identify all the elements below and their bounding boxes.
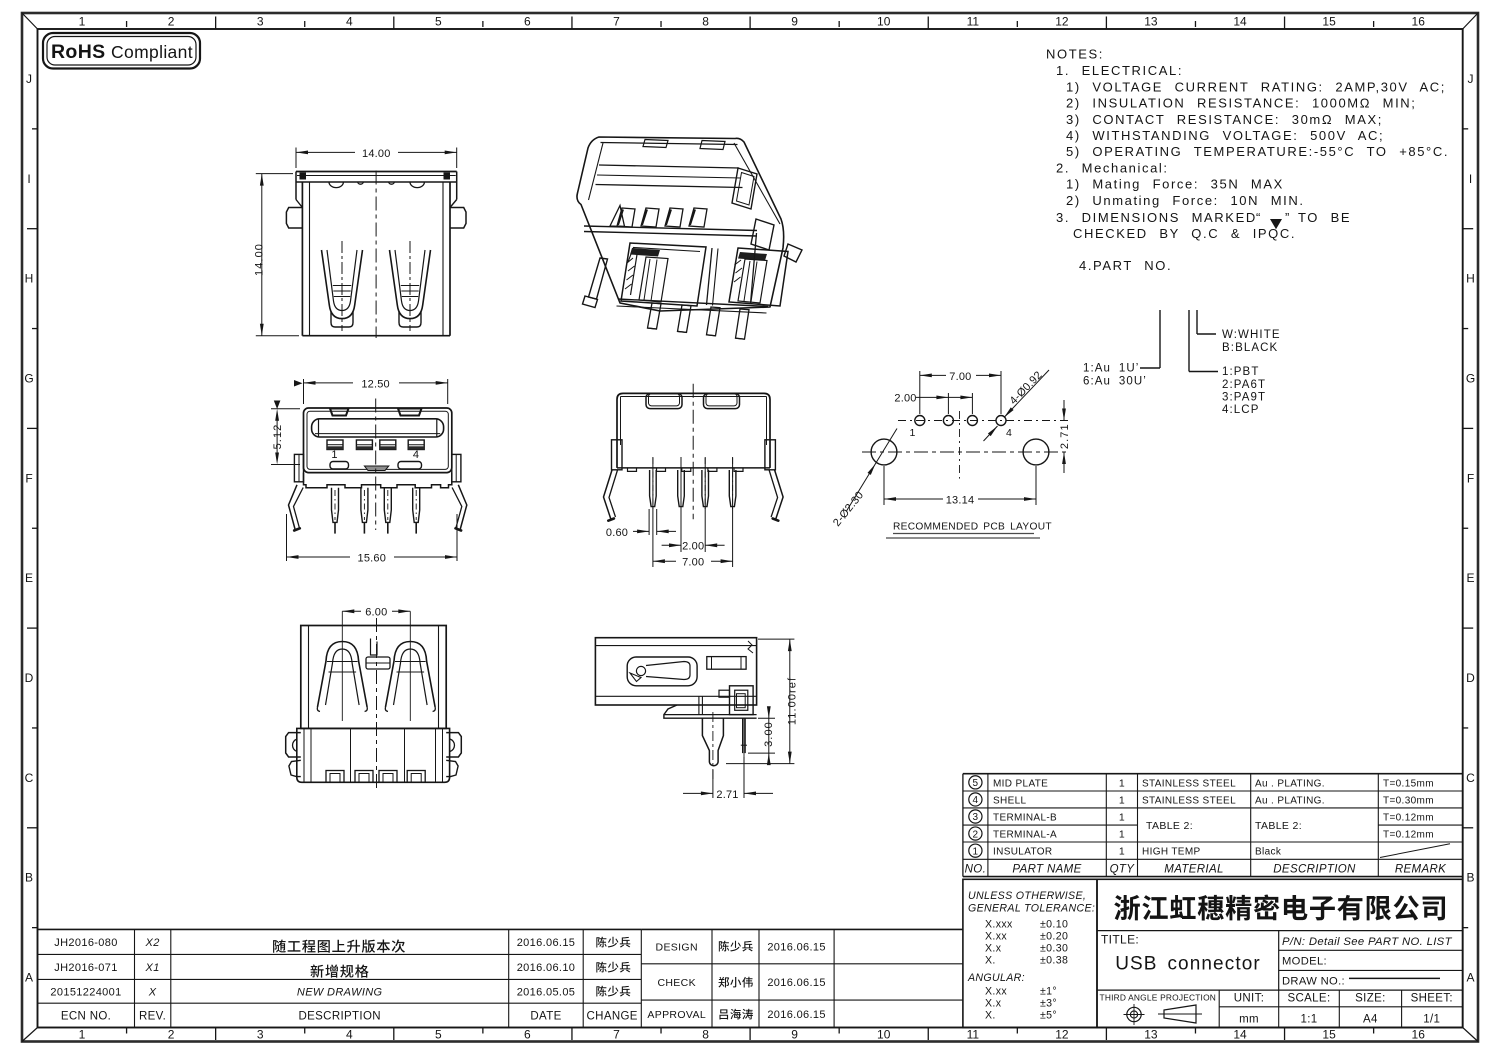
isometric view: right pointed tab xyxy=(784,244,802,262)
svg-text:2016.05.05: 2016.05.05 xyxy=(517,986,576,998)
svg-text:T=0.12mm: T=0.12mm xyxy=(1383,830,1434,841)
side view: dimension 3.00 line and arrows xyxy=(768,707,770,718)
back view: side tab left xyxy=(612,440,623,470)
svg-text:±0.38: ±0.38 xyxy=(1040,955,1068,967)
svg-text:X.xx: X.xx xyxy=(985,986,1007,998)
pcb layout: dimension 2.00 extension lines xyxy=(947,393,949,414)
isometric view: top face notch 1 xyxy=(643,140,668,148)
ruler column numbers bottom xyxy=(79,1028,1426,1042)
svg-text:3) CONTACT RESISTANCE: 30mΩ MA: 3) CONTACT RESISTANCE: 30mΩ MAX; xyxy=(1066,112,1383,127)
ruler tick marks left edge xyxy=(32,128,38,130)
title block draw no dash xyxy=(1349,977,1440,979)
frame corner diagonal bottom-left xyxy=(22,1028,38,1042)
top view: dimension 12.50 extension lines xyxy=(303,379,305,404)
svg-text:±1°: ±1° xyxy=(1040,986,1057,998)
svg-text:13: 13 xyxy=(1144,15,1158,29)
svg-text:1) VOLTAGE CURRENT RATING: 2AM: 1) VOLTAGE CURRENT RATING: 2AMP,30V AC; xyxy=(1066,80,1446,95)
svg-text:6:Au 30U’: 6:Au 30U’ xyxy=(1083,376,1147,388)
svg-text:DESCRIPTION: DESCRIPTION xyxy=(1273,864,1356,876)
svg-text:CHECK: CHECK xyxy=(657,977,696,989)
svg-text:DESIGN: DESIGN xyxy=(656,942,698,954)
front view: contact spring right xyxy=(390,250,431,319)
bottom view: contact spring bell right xyxy=(386,642,436,708)
isometric view: rim left triangle feature xyxy=(610,206,625,227)
svg-text:I: I xyxy=(1469,172,1472,186)
back view: dimension 0.60 arrows xyxy=(633,530,649,532)
bottom view: side bracket right upper xyxy=(446,733,461,757)
pcb layout: dimension 7.00 line and arrows xyxy=(920,374,946,376)
isometric view: top face back edge inner line xyxy=(601,143,738,145)
isometric view: right face cutout lower xyxy=(751,219,774,250)
svg-text:13: 13 xyxy=(1144,1028,1158,1042)
svg-text:4: 4 xyxy=(346,1028,353,1042)
svg-text:D: D xyxy=(25,671,34,685)
back view: bottom castellation xyxy=(628,468,637,472)
front view: dimension 14.00 width extension lines xyxy=(295,148,297,169)
top view: terminal pins xyxy=(332,488,339,523)
svg-text:20151224001: 20151224001 xyxy=(50,986,121,998)
top view: side tab right xyxy=(452,454,461,481)
svg-text:±3°: ±3° xyxy=(1040,998,1057,1010)
isometric view: bent mounting leg left xyxy=(589,258,608,299)
svg-text:0.60: 0.60 xyxy=(606,527,628,539)
parts table grid xyxy=(963,773,1463,775)
svg-text:B: B xyxy=(1466,871,1474,885)
svg-text:HIGH TEMP: HIGH TEMP xyxy=(1142,847,1201,858)
svg-text:1/1: 1/1 xyxy=(1423,1013,1440,1025)
bottom view: base block seam lines xyxy=(303,728,305,782)
svg-text:MODEL:: MODEL: xyxy=(1282,956,1327,968)
side view: peg centerline xyxy=(712,712,714,781)
svg-text:SHELL: SHELL xyxy=(993,795,1027,806)
svg-text:1: 1 xyxy=(1119,777,1125,789)
bottom view: side bracket left upper xyxy=(286,733,301,757)
front view: side mounting flange right xyxy=(450,208,466,229)
ruler tick marks top edge xyxy=(126,21,128,27)
pcb layout: leader 4-dia0.92 xyxy=(1004,370,1049,418)
svg-text:NEW DRAWING: NEW DRAWING xyxy=(297,986,383,998)
svg-text:2:PA6T: 2:PA6T xyxy=(1222,379,1266,391)
svg-text:9: 9 xyxy=(791,15,798,29)
svg-text:1: 1 xyxy=(331,449,338,461)
svg-text:±0.10: ±0.10 xyxy=(1040,919,1068,931)
svg-text:RECOMMENDED PCB LAYOUT: RECOMMENDED PCB LAYOUT xyxy=(893,522,1052,533)
revision table change names xyxy=(596,937,630,948)
bottom view: side bracket right lower xyxy=(446,760,458,776)
svg-text:H: H xyxy=(1466,272,1475,286)
svg-text:1: 1 xyxy=(79,15,86,29)
front view: shell body outline xyxy=(301,182,303,336)
top view: checked triangle marker horizontal xyxy=(294,380,303,387)
svg-text:10: 10 xyxy=(877,1028,891,1042)
bottom view: center hook feature xyxy=(371,639,378,656)
svg-text:1: 1 xyxy=(79,1028,86,1042)
back view: dimension 0.60 extension lines xyxy=(648,509,650,535)
svg-text:T=0.12mm: T=0.12mm xyxy=(1383,813,1434,824)
top view: bottom center notch xyxy=(364,466,388,471)
svg-text:Au . PLATING.: Au . PLATING. xyxy=(1255,778,1325,789)
side view: body outline xyxy=(595,638,756,705)
svg-text:2: 2 xyxy=(168,1028,175,1042)
side view: dimension 11.00ref line and arrows xyxy=(789,639,791,764)
front view: dimension 14.00 height line and arrows xyxy=(261,174,263,336)
top view: dimension 5.12 extension lines xyxy=(271,408,300,410)
svg-text:15.60: 15.60 xyxy=(358,552,387,564)
svg-text:4: 4 xyxy=(413,449,420,461)
svg-text:15: 15 xyxy=(1322,1028,1336,1042)
title block title/pn divider xyxy=(1278,931,1280,991)
svg-text:2016.06.15: 2016.06.15 xyxy=(767,1009,826,1021)
svg-text:SIZE:: SIZE: xyxy=(1355,993,1386,1005)
svg-text:1:Au 1U’: 1:Au 1U’ xyxy=(1083,363,1139,375)
frame corner diagonal top-left xyxy=(22,13,38,29)
svg-text:X: X xyxy=(148,986,157,998)
pcb layout: pin hole centerline horizontal xyxy=(898,420,1070,422)
svg-text:X.x: X.x xyxy=(985,998,1002,1010)
svg-text:4: 4 xyxy=(1006,427,1013,439)
svg-text:GENERAL TOLERANCE:: GENERAL TOLERANCE: xyxy=(968,903,1095,915)
svg-text:mm: mm xyxy=(1239,1013,1259,1025)
svg-text:B:BLACK: B:BLACK xyxy=(1222,342,1278,354)
top view: shell body outline xyxy=(304,408,452,473)
back view: bent side leg right xyxy=(775,470,784,520)
svg-text:2016.06.15: 2016.06.15 xyxy=(767,977,826,989)
svg-text:2) INSULATION RESISTANCE: 1000: 2) INSULATION RESISTANCE: 1000MΩ MIN; xyxy=(1066,96,1416,111)
svg-text:X.xxx: X.xxx xyxy=(985,919,1013,931)
isometric view: front rim bottom double line xyxy=(584,226,757,231)
isometric view: terminal legs xyxy=(648,303,662,329)
svg-text:2: 2 xyxy=(972,829,978,840)
svg-text:NOTES:: NOTES: xyxy=(1046,47,1104,62)
top view: dimension 15.60 line and arrows xyxy=(287,556,351,558)
svg-text:1) Mating Force: 35N MAX: 1) Mating Force: 35N MAX xyxy=(1066,177,1284,192)
svg-text:T=0.30mm: T=0.30mm xyxy=(1383,795,1434,806)
svg-text:SHEET:: SHEET: xyxy=(1411,993,1453,1005)
svg-text:15: 15 xyxy=(1322,15,1336,29)
top view: bottom cutout left xyxy=(330,462,349,470)
svg-text:16: 16 xyxy=(1412,1028,1426,1042)
top view: bottom cutout right xyxy=(398,462,422,470)
frame corner diagonal bottom-right xyxy=(1463,1028,1478,1042)
svg-text:±0.30: ±0.30 xyxy=(1040,943,1068,955)
svg-text:H: H xyxy=(25,272,34,286)
svg-text:1:PBT: 1:PBT xyxy=(1222,366,1259,378)
svg-text:Au . PLATING.: Au . PLATING. xyxy=(1255,795,1325,806)
svg-text:14.00: 14.00 xyxy=(254,243,266,276)
svg-text:F: F xyxy=(1467,471,1474,485)
svg-text:X1: X1 xyxy=(145,962,160,974)
front view: side mounting flange left xyxy=(286,208,302,229)
revision row2 Chinese description xyxy=(310,964,368,977)
svg-text:X.: X. xyxy=(985,1010,996,1022)
back view: vertical centerline xyxy=(692,384,694,520)
svg-text:4: 4 xyxy=(346,15,353,29)
svg-text:4:LCP: 4:LCP xyxy=(1222,404,1259,416)
svg-text:UNIT:: UNIT: xyxy=(1234,993,1265,1005)
part number legend vertical line color xyxy=(1196,310,1198,334)
svg-text:CHECKED BY Q.C & IPQC.: CHECKED BY Q.C & IPQC. xyxy=(1073,226,1296,241)
svg-text:2.00: 2.00 xyxy=(682,541,704,553)
side view: pin centerline xyxy=(743,718,745,788)
pcb layout: caption underline double xyxy=(893,533,1034,535)
pcb layout: pin holes 4x xyxy=(915,416,925,426)
top view: top edge cutout right xyxy=(398,409,422,416)
top view: tongue bar xyxy=(312,419,444,437)
svg-text:7: 7 xyxy=(613,1028,620,1042)
svg-text:3. DIMENSIONS MARKED: 3. DIMENSIONS MARKED xyxy=(1056,210,1257,225)
pcb layout: leader 2-dia2.30 xyxy=(847,429,898,512)
back view: terminal pins xyxy=(650,470,657,507)
isometric view: shell silhouette xyxy=(577,137,784,311)
svg-text:14: 14 xyxy=(1233,1028,1247,1042)
svg-text:1: 1 xyxy=(1119,846,1125,858)
svg-text:USB connector: USB connector xyxy=(1115,954,1261,975)
svg-text:TERMINAL-B: TERMINAL-B xyxy=(993,813,1057,824)
svg-text:3.00: 3.00 xyxy=(763,721,775,747)
side view: top-right seam mark xyxy=(748,641,753,653)
svg-text:±5°: ±5° xyxy=(1040,1010,1057,1022)
front view: contact spring left xyxy=(322,250,363,319)
svg-text:TABLE 2:: TABLE 2: xyxy=(1255,820,1302,832)
title block projection cone symbol xyxy=(1164,1005,1196,1023)
svg-text:5: 5 xyxy=(972,778,978,789)
svg-text:STAINLESS STEEL: STAINLESS STEEL xyxy=(1142,795,1236,806)
svg-text:DRAW NO.:: DRAW NO.: xyxy=(1282,976,1345,988)
bottom view: shell body outline xyxy=(301,626,446,729)
svg-text:STAINLESS STEEL: STAINLESS STEEL xyxy=(1142,778,1236,789)
svg-text:E: E xyxy=(25,571,33,585)
ruler tick marks right edge xyxy=(1463,128,1469,130)
svg-text:PART NAME: PART NAME xyxy=(1012,864,1081,876)
back view: shell body outline xyxy=(617,393,770,468)
svg-text:Black: Black xyxy=(1255,847,1282,858)
tolerance block box xyxy=(963,879,1097,1027)
isometric view: rim slot row xyxy=(617,208,635,227)
company name Chinese text xyxy=(1114,894,1445,920)
part number legend vertical line material xyxy=(1188,310,1190,372)
svg-text:MID PLATE: MID PLATE xyxy=(993,778,1048,789)
svg-text:2. Mechanical:: 2. Mechanical: xyxy=(1056,161,1169,176)
svg-text:8: 8 xyxy=(702,15,709,29)
front view: cap left bevel xyxy=(296,200,302,208)
svg-text:G: G xyxy=(24,372,33,386)
svg-text:±0.20: ±0.20 xyxy=(1040,931,1068,943)
pcb layout: dimension 13.14 extension lines xyxy=(883,466,885,505)
bottom view: contact centerline right xyxy=(409,611,411,721)
back view: shell inner wall lines xyxy=(621,396,767,398)
svg-text:“: “ xyxy=(1256,210,1262,225)
front view: shell wall inner lines xyxy=(309,182,311,336)
bottom view: contact spring bell left xyxy=(318,642,368,708)
svg-text:ANGULAR:: ANGULAR: xyxy=(967,972,1025,984)
svg-text:1. ELECTRICAL:: 1. ELECTRICAL: xyxy=(1056,63,1183,78)
svg-text:TERMINAL-A: TERMINAL-A xyxy=(993,830,1057,841)
svg-text:TITLE:: TITLE: xyxy=(1101,933,1139,947)
ruler row letters right xyxy=(1466,72,1475,985)
svg-text:7.00: 7.00 xyxy=(949,371,971,383)
isometric view: front-right vertical edge xyxy=(751,233,757,304)
pcb layout: mounting hole right xyxy=(1023,439,1049,465)
isometric view: right face boundary xyxy=(734,143,780,224)
parts table circled item numbers xyxy=(969,776,982,789)
svg-text:P/N: Detail See PART NO. LIST: P/N: Detail See PART NO. LIST xyxy=(1282,936,1453,948)
svg-text:INSULATOR: INSULATOR xyxy=(993,847,1052,858)
title block bottom strip line xyxy=(1097,989,1463,991)
revision row1 Chinese description xyxy=(273,939,405,952)
isometric view: left rim inner edge xyxy=(589,143,604,200)
approval block names xyxy=(719,941,753,952)
ruler column numbers top xyxy=(79,15,1426,29)
pcb layout: dimension 2.71 line and arrows xyxy=(1063,400,1065,421)
svg-text:6: 6 xyxy=(524,1028,531,1042)
svg-text:J: J xyxy=(1468,72,1474,86)
isometric view: front face window right xyxy=(729,248,788,306)
title block pn/model line xyxy=(1279,949,1463,951)
pcb layout: centerline vertical xyxy=(959,411,961,479)
svg-text:SCALE:: SCALE: xyxy=(1287,993,1330,1005)
svg-text:13.14: 13.14 xyxy=(946,494,975,506)
svg-text:QTY: QTY xyxy=(1110,864,1136,876)
back view: top slot left xyxy=(646,394,682,409)
svg-text:7.00: 7.00 xyxy=(682,557,704,569)
approval block grid xyxy=(641,928,963,930)
svg-text:NO.: NO. xyxy=(965,864,987,876)
front view: cap solder tab left (filled) xyxy=(300,173,307,180)
bottom view: contact centerline left xyxy=(341,611,343,721)
top view: vertical centerline xyxy=(375,399,377,531)
svg-text:2016.06.10: 2016.06.10 xyxy=(517,962,576,974)
svg-text:16: 16 xyxy=(1412,15,1426,29)
svg-text:TO BE: TO BE xyxy=(1298,210,1351,225)
title block outer box xyxy=(1097,879,1463,1027)
RoHS Compliant badge outer box xyxy=(43,33,200,69)
back view: dimension 7.00 extension lines xyxy=(652,457,654,567)
svg-text:I: I xyxy=(27,172,30,186)
svg-text:4: 4 xyxy=(972,795,978,806)
svg-text:3:PA9T: 3:PA9T xyxy=(1222,392,1266,404)
svg-text:APPROVAL: APPROVAL xyxy=(647,1009,706,1021)
front view: vertical centerline xyxy=(375,171,377,339)
pcb layout: dimension 13.14 line and arrows xyxy=(884,498,943,500)
svg-text:A: A xyxy=(1466,971,1474,985)
side view: contact arm in slot xyxy=(646,662,690,680)
svg-text:DATE: DATE xyxy=(530,1010,561,1022)
back view: dimension 2.00 arrows xyxy=(662,544,681,546)
side view: module left notch xyxy=(719,690,730,697)
svg-text:A4: A4 xyxy=(1363,1013,1378,1025)
svg-text:C: C xyxy=(1466,771,1475,785)
title block projection target symbol xyxy=(1127,1007,1141,1021)
svg-text:3: 3 xyxy=(972,812,978,823)
front view: dimension 14.00 width line and arrows xyxy=(296,151,355,153)
top view: dimension 12.50 line and arrows xyxy=(304,382,354,384)
ruler row letters left xyxy=(24,72,33,985)
revision table grid xyxy=(38,928,642,930)
svg-text:2016.06.15: 2016.06.15 xyxy=(767,942,826,954)
svg-text:2.00: 2.00 xyxy=(894,392,916,404)
svg-text:8: 8 xyxy=(702,1028,709,1042)
svg-text:DESCRIPTION: DESCRIPTION xyxy=(298,1010,380,1022)
svg-text:5) OPERATING TEMPERATURE:-55°C: 5) OPERATING TEMPERATURE:-55°C TO +85°C. xyxy=(1066,144,1449,159)
back view: dimension 2.00 extension lines xyxy=(680,457,682,552)
side view: terminal pin side xyxy=(742,718,744,753)
svg-text:REMARK: REMARK xyxy=(1395,864,1447,876)
svg-text:ECN NO.: ECN NO. xyxy=(61,1010,111,1022)
bottom view: dimension 6.00 arrows xyxy=(342,610,361,612)
svg-text:5: 5 xyxy=(435,15,442,29)
side view: mounting peg xyxy=(702,718,723,766)
side view: left slot rounded xyxy=(627,657,697,686)
isometric view: front face window left xyxy=(621,243,706,306)
svg-text:X.xx: X.xx xyxy=(985,931,1007,943)
svg-text:2) Unmating Force: 10N MIN.: 2) Unmating Force: 10N MIN. xyxy=(1066,193,1305,208)
svg-text:D: D xyxy=(1466,671,1475,685)
isometric view: base top edge xyxy=(618,299,768,307)
title block model/drawno line xyxy=(1279,969,1463,971)
svg-text:2.71: 2.71 xyxy=(1059,423,1071,449)
svg-text:W:WHITE: W:WHITE xyxy=(1222,329,1281,341)
svg-text:G: G xyxy=(1466,372,1475,386)
svg-text:J: J xyxy=(26,72,32,86)
svg-text:JH2016-080: JH2016-080 xyxy=(54,937,117,949)
svg-text:B: B xyxy=(25,871,33,885)
svg-text:JH2016-071: JH2016-071 xyxy=(54,962,117,974)
svg-text:1: 1 xyxy=(910,427,917,439)
parts table remark diagonal xyxy=(1380,844,1450,858)
svg-text:11: 11 xyxy=(967,1028,980,1042)
svg-text:11: 11 xyxy=(967,15,980,29)
side view: body inner lines xyxy=(595,645,756,647)
svg-text:12: 12 xyxy=(1055,15,1069,29)
svg-text:THIRD ANGLE PROJECTION: THIRD ANGLE PROJECTION xyxy=(1100,993,1217,1003)
back view: bent side leg left xyxy=(604,470,613,520)
svg-text:11.00ref: 11.00ref xyxy=(787,677,799,725)
pcb layout: mounting hole centerline horizontal xyxy=(862,451,1070,453)
side view: mounting plate xyxy=(664,705,757,718)
front view: dimension 14.00 height extension lines xyxy=(256,173,293,175)
top view: top edge cutout left xyxy=(330,409,349,416)
side view: right lower module xyxy=(730,686,754,715)
isometric view: center divider xyxy=(707,248,713,305)
side view: dimension 3.00 extension lines xyxy=(758,717,775,719)
svg-text:12.50: 12.50 xyxy=(361,378,390,390)
svg-text:CHANGE: CHANGE xyxy=(587,1010,638,1022)
title block company row line xyxy=(1097,930,1463,932)
svg-text:5: 5 xyxy=(435,1028,442,1042)
front view: cap right bevel xyxy=(450,200,457,208)
svg-text:4.PART NO.: 4.PART NO. xyxy=(1079,258,1172,273)
top view: side tab left xyxy=(294,454,303,481)
isometric view: top rim inner lines xyxy=(599,165,739,168)
svg-text:RoHS: RoHS xyxy=(51,41,105,63)
side view: dimension 11.00ref extension lines xyxy=(758,638,794,640)
svg-text:4) WITHSTANDING VOLTAGE: 500V: 4) WITHSTANDING VOLTAGE: 500V AC; xyxy=(1066,128,1384,143)
top view: checked triangle marker vertical xyxy=(274,401,281,410)
back view: dimension 7.00 line and arrows xyxy=(653,560,676,562)
svg-text:3: 3 xyxy=(257,15,264,29)
part number legend vertical line plating xyxy=(1159,310,1161,368)
side view: right slot xyxy=(707,657,746,670)
bottom view: side bracket left lower xyxy=(289,760,301,776)
isometric view: right face cutout upper xyxy=(732,168,757,209)
pcb layout: mounting hole left xyxy=(871,439,897,465)
back view: top slot right xyxy=(704,394,740,409)
svg-text:T=0.15mm: T=0.15mm xyxy=(1383,778,1434,789)
svg-text:6: 6 xyxy=(524,15,531,29)
svg-text:9: 9 xyxy=(791,1028,798,1042)
bottom view: pin holes xyxy=(326,771,344,783)
svg-text:X.x: X.x xyxy=(985,943,1002,955)
